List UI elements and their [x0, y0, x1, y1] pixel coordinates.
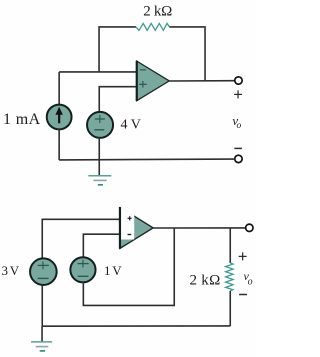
svg-text:1 V: 1 V	[104, 263, 122, 278]
voltage source 1 V	[70, 257, 95, 282]
terminal vo+ (top right, open circle)	[235, 77, 242, 84]
wire below 4V source to ground bus	[98, 138, 100, 160]
ground (bottom circuit)	[31, 326, 52, 351]
wire below load resistor	[229, 291, 231, 326]
wire op-amp output	[169, 80, 235, 82]
wire noninverting input from 4V source	[99, 87, 137, 113]
svg-text:3 V: 3 V	[1, 263, 19, 278]
wire inverting input (top)	[59, 71, 137, 73]
wire inverting input from 1V source	[83, 234, 120, 257]
wire left vertical above current source	[58, 72, 60, 105]
label - (output polarity)	[234, 147, 242, 149]
svg-text:2 kΩ: 2 kΩ	[143, 4, 172, 20]
label + (output polarity)	[234, 90, 242, 98]
label + (load polarity)	[239, 252, 247, 260]
terminal output (open circle, bottom circuit)	[246, 224, 253, 231]
wire feedback from 1V bottom to output node	[83, 228, 174, 305]
wire bottom bus (bottom circuit)	[42, 325, 230, 327]
voltage source 4 V	[87, 112, 113, 138]
wire op-amp output (bottom)	[153, 227, 246, 229]
op-amp U1 (top)	[137, 61, 170, 101]
svg-text:1 mA: 1 mA	[3, 111, 41, 128]
wire feedback top-left segment	[99, 27, 136, 72]
resistor 2 kOhm load (vertical zigzag)	[226, 263, 233, 291]
current source 1 mA	[47, 105, 72, 130]
wire bottom bus (top circuit)	[59, 158, 235, 161]
svg-text:2 kΩ: 2 kΩ	[189, 273, 220, 289]
label - (load polarity)	[239, 294, 247, 296]
terminal vo- (bottom right, open circle)	[235, 155, 242, 162]
wire below 3V source	[41, 285, 43, 326]
wire output node down to load resistor	[229, 228, 231, 263]
wire left vertical below current source	[58, 129, 60, 160]
wire noninverting input (top) from 3V source	[42, 219, 120, 258]
svg-text:4 V: 4 V	[120, 118, 140, 133]
op-amp U2 (bottom)	[119, 206, 153, 249]
wire feedback top-right segment	[169, 27, 205, 81]
resistor 2 kOhm (horizontal zigzag)	[136, 23, 170, 30]
ground (top circuit)	[88, 160, 111, 185]
voltage source 3 V	[30, 258, 57, 285]
